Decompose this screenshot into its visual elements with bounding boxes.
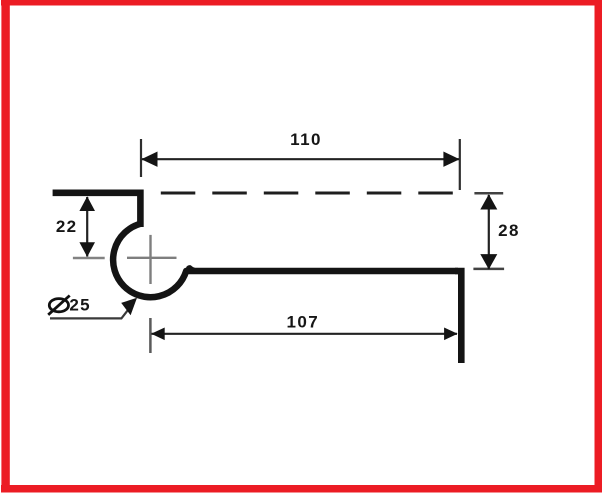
- dimension 22 value label: [56, 217, 78, 236]
- dimension 22 bottom extension tick: [73, 257, 105, 260]
- svg-text:110: 110: [290, 130, 322, 149]
- dashed reference line: [161, 192, 454, 195]
- red border frame bottom band: [1, 485, 602, 493]
- dimension 28 line: [488, 195, 490, 269]
- dimension 107 right arrowhead: [444, 328, 458, 341]
- diameter symbol circle: [49, 299, 68, 312]
- svg-text:25: 25: [69, 296, 91, 315]
- dimension 110 left extension line: [140, 139, 142, 177]
- dimension 22 top arrowhead: [79, 196, 95, 211]
- dimension 28 bottom extension tick: [473, 268, 504, 271]
- dimension 110 left arrowhead: [141, 152, 157, 167]
- red border frame right band: [595, 0, 603, 493]
- red border frame left band: [1, 0, 9, 493]
- dimension 107 value label: [287, 313, 320, 332]
- dimension 110 right arrowhead: [443, 152, 459, 167]
- dimension 28 top extension tick: [474, 192, 503, 195]
- dimension 22 line: [86, 197, 88, 257]
- center mark cross vertical arm: [149, 235, 151, 284]
- profile top flange and corner: [53, 193, 141, 227]
- dimension 110 line: [142, 158, 459, 160]
- leader arrowhead pointing to circle: [121, 298, 137, 316]
- red border frame top band: [1, 0, 602, 6]
- profile right web and end wall: [455, 271, 461, 363]
- svg-text:28: 28: [498, 221, 520, 240]
- leader line for diameter 25: [50, 308, 130, 318]
- svg-text:22: 22: [56, 217, 78, 236]
- svg-text:107: 107: [287, 313, 320, 332]
- dimension 28 bottom arrowhead: [480, 254, 497, 269]
- fillet between circle and right web: [185, 265, 196, 272]
- dimension 107 line: [152, 333, 458, 335]
- dimension 22 bottom arrowhead: [79, 242, 95, 257]
- diameter symbol slash: [48, 296, 69, 315]
- profile circular bead (open arc): [113, 224, 458, 297]
- dimension 110 value label: [290, 130, 322, 149]
- dimension 107 left extension line: [149, 318, 152, 353]
- dimension 28 value label: [498, 221, 520, 240]
- diameter value label 25: [69, 296, 91, 315]
- dimension 110 right extension line: [459, 139, 461, 190]
- center mark cross horizontal arm: [127, 257, 177, 259]
- dimension 28 top arrowhead: [480, 194, 497, 209]
- dimension 107 left arrowhead: [151, 328, 165, 341]
